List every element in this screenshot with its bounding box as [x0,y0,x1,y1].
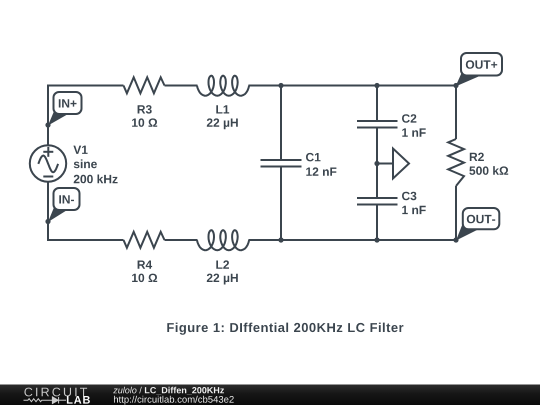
wire C3 branch lower [376,205,378,241]
label C2 value [402,114,426,137]
wire left branch below V1 [48,182,124,241]
label L1 value [207,105,238,129]
node flag IN- [48,188,80,222]
label L2 value [207,260,238,284]
junction node OUT- corner [453,237,458,242]
capacitor C1 [261,160,302,167]
junction node C2 top [374,83,379,88]
footer project name [113,387,224,395]
wire bottom rail from L2 to OUT- corner [248,239,456,241]
inductor L1 [197,76,249,96]
junction node C3 bottom [374,237,379,242]
wire top rail left segment [48,86,124,146]
wire C1 branch upper [280,86,282,161]
node flag IN+ [48,92,82,126]
resistor R2 [448,139,464,186]
label R2 value [469,153,508,175]
wire C2 to C3 middle segment [376,128,378,199]
footer logo CIRCUIT [24,388,87,397]
voltage source V1 [30,145,66,181]
junction node at IN+ [45,122,50,127]
footer url [114,396,234,405]
wire top rail from L1 to OUT+ corner [248,85,456,87]
label R4 value [132,261,157,283]
wire probe stub [377,163,393,165]
wire R2 branch lower [455,186,457,240]
wire C1 branch lower [280,167,282,241]
node flag OUT+ [456,53,503,87]
junction node probe tap [374,161,379,166]
wire top rail between R3 and L1 [165,85,198,87]
caption Figure 1 [167,323,403,335]
inductor L2 [197,230,249,250]
label R3 value [132,105,157,127]
junction node at IN- [45,219,50,224]
label C1 value [306,153,336,176]
footer logo LAB [67,396,90,404]
capacitor C2 [357,121,398,128]
wire R2 branch upper [455,86,457,140]
label V1 value [73,146,117,184]
junction node OUT+ corner [453,83,458,88]
wire bottom rail between R4 and L2 [165,239,198,241]
capacitor C3 [357,198,398,205]
resistor R3 [124,77,165,93]
footer logo mini resistor and diode [24,397,67,404]
wire C2 branch upper [376,86,378,122]
footer bar [0,385,540,405]
probe buffer triangle [393,149,409,179]
node flag OUT- [456,208,499,241]
junction node C1 bottom [278,237,283,242]
junction node C1 top [278,83,283,88]
label C3 value [402,192,426,214]
resistor R4 [124,232,165,248]
